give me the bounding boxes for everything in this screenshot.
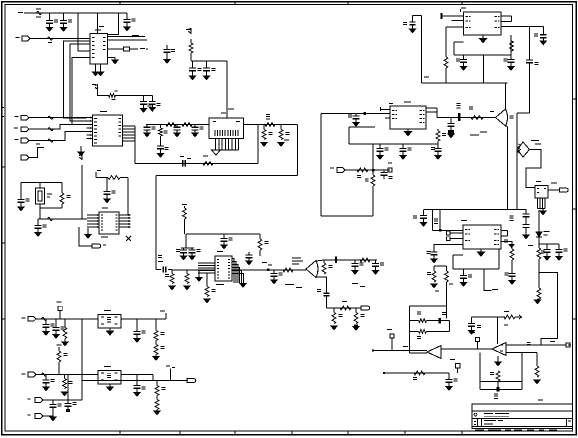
resistor R36 (536, 353, 538, 367)
wire U1 top right to rail (108, 13, 119, 35)
IC U8 (463, 225, 501, 249)
capacitor C18 (183, 248, 185, 250)
wire (96, 177, 108, 179)
ground (60, 28, 66, 32)
ground (377, 156, 383, 160)
power net label VCC (18, 12, 23, 13)
ground (354, 325, 358, 327)
wire to J8 (327, 307, 362, 309)
capacitor C20 (223, 234, 225, 239)
wire rail y209 (424, 209, 517, 211)
net label (284, 140, 289, 141)
resistor R26 (371, 175, 375, 186)
wire junction down (81, 319, 83, 400)
ground (50, 417, 56, 421)
title block (472, 404, 573, 429)
terminal (58, 306, 62, 310)
ground (556, 257, 562, 261)
capacitor C2 (63, 13, 65, 21)
ground (468, 331, 474, 335)
junction (364, 112, 367, 115)
wire J3 to U2 (29, 125, 87, 130)
wire right loop (539, 273, 557, 345)
ground (537, 298, 539, 301)
IC U2 (93, 115, 123, 146)
wire (345, 169, 390, 171)
ground (78, 152, 84, 156)
resistor R37 (504, 315, 515, 319)
U4 left pins (87, 214, 99, 216)
wire bottom net (385, 372, 449, 374)
capacitor C6 (206, 61, 208, 68)
wire bus A to bus B (257, 125, 259, 164)
wire loop down (483, 55, 485, 83)
capacitor C28 (402, 144, 404, 149)
U7 loop below (453, 42, 455, 55)
junction (267, 269, 270, 272)
capacitor C54 (413, 15, 422, 17)
resistor R18 (206, 273, 208, 287)
resistor R24 (355, 308, 357, 313)
U1 bottom pins (95, 64, 97, 72)
bead FB6 (42, 373, 47, 376)
ground (61, 392, 67, 396)
resistor R19 inline (283, 268, 293, 272)
ferrite bead FB2 (48, 116, 53, 119)
wire (190, 39, 192, 43)
wire U8 pin3 (434, 245, 463, 253)
wire rail (191, 60, 227, 62)
wire U3 out (437, 117, 496, 119)
wire U1 pin4 to rail (78, 13, 90, 51)
terminal (566, 343, 570, 347)
power symbol (95, 85, 98, 91)
junction (496, 387, 499, 392)
resistor R45 pullup (57, 345, 62, 346)
crystal Y1 (39, 183, 41, 189)
capacitor C46 (448, 373, 450, 380)
capacitor C15 (37, 219, 39, 226)
resistor R21 inline (360, 258, 370, 262)
ground (144, 133, 150, 137)
resistor R42 (64, 319, 66, 328)
ground (203, 76, 209, 80)
resistor R33 (446, 266, 448, 271)
ground (46, 28, 52, 32)
U7 left pin bar (441, 13, 443, 19)
ground (400, 156, 406, 160)
wire (81, 165, 83, 219)
ground (409, 29, 415, 33)
ground (534, 380, 540, 384)
bend tap (95, 172, 97, 178)
wire U6 out (548, 189, 560, 191)
wire opamp2 rail (506, 344, 566, 346)
wire W1 vertical (155, 176, 157, 270)
wire Q1 top (316, 260, 377, 261)
bend (165, 313, 167, 319)
ground (169, 286, 175, 290)
ground (523, 235, 529, 239)
ground (180, 256, 186, 260)
ground (43, 387, 49, 391)
ground (174, 133, 180, 137)
ground (43, 332, 49, 336)
terminal (388, 168, 392, 172)
capacitor C35 (529, 27, 531, 61)
connector J4 (21, 138, 29, 143)
resistor R23 (333, 308, 335, 313)
ground FL2 (109, 384, 111, 387)
resistor R41 inline (414, 371, 425, 375)
ground (544, 257, 550, 261)
wire FL2 out (121, 374, 153, 376)
connector J9 (330, 168, 334, 169)
resistor R1 (48, 37, 53, 40)
wire main bus mid (172, 269, 215, 271)
capacitor C42 (511, 269, 513, 274)
connector J13 (187, 378, 196, 382)
wire (507, 188, 509, 210)
wire A1 out (374, 350, 427, 352)
wire U1 pin3 down (70, 44, 90, 121)
U3 pin stub (380, 107, 382, 111)
ground (431, 284, 437, 288)
wire J4 to U2 (29, 132, 87, 141)
terminal (456, 364, 461, 369)
power symbol (79, 155, 82, 161)
wire J2 to U2 (29, 117, 87, 119)
capacitor C23 (354, 260, 356, 264)
U2 left pins (87, 117, 93, 119)
filter FL1 (98, 315, 121, 329)
wire FL1 out (121, 318, 166, 320)
wire A1 lower input (410, 352, 427, 354)
U3 pin stub2 (385, 117, 390, 119)
resistor R44 (155, 341, 157, 345)
ground (140, 109, 146, 113)
border tick marks (119, 2, 121, 5)
ground (460, 283, 466, 287)
IC U6 (535, 186, 548, 199)
capacitor C48 (55, 319, 57, 328)
ground (184, 286, 190, 290)
U3 right pins (426, 107, 437, 109)
wire rail to connector block (226, 61, 228, 118)
wire Q1 bottom (316, 277, 327, 293)
diode D1 (538, 210, 540, 232)
capacitor C9b (160, 136, 162, 146)
ground (134, 393, 140, 397)
wire U1 pin2 down (64, 41, 90, 118)
U7 right pins (501, 15, 512, 17)
capacitor C22 (273, 270, 275, 274)
capacitor C29 (437, 144, 439, 149)
wire to J13 (82, 380, 188, 382)
ground (134, 339, 140, 343)
wire crystal rail (21, 182, 62, 184)
U5 right pins comb (232, 259, 234, 284)
capacitor C14 (20, 183, 22, 200)
ground open (212, 150, 221, 155)
ground (446, 387, 452, 391)
wire left net (410, 305, 447, 307)
U2 ground stub (80, 146, 82, 152)
wire diode rail (539, 243, 559, 245)
capacitor C4 (166, 45, 168, 50)
op-amp A2 (492, 343, 506, 356)
wire J1 to U1 (30, 38, 90, 40)
title block bottom text (475, 429, 484, 430)
wire A2 input2 (506, 352, 537, 354)
ground (508, 67, 514, 71)
capacitor C24 (375, 260, 377, 264)
net tie symbol (37, 12, 42, 15)
ground (431, 259, 437, 263)
capacitor C40 (431, 251, 438, 253)
U8 left pins (447, 231, 451, 235)
wire U1 pin to label (108, 35, 146, 37)
ground (261, 143, 267, 147)
wire left vert (421, 16, 423, 84)
wire (36, 318, 98, 320)
ground (372, 271, 378, 275)
U8 right pins (501, 230, 508, 232)
U8 loop below (452, 255, 454, 269)
capacitor C38 chain (517, 195, 526, 214)
resistor R16 (171, 270, 173, 274)
wire A1 inputs (440, 346, 442, 358)
wire down right (538, 262, 540, 288)
ground FL1 (109, 328, 111, 331)
resistor R35 (537, 288, 541, 299)
resistor R7 inline (265, 123, 275, 127)
ground (480, 249, 482, 252)
capacitor C41 (463, 269, 465, 276)
connector J12 (28, 372, 36, 377)
resistor R9 (280, 125, 282, 130)
zone letters (2, 107, 4, 108)
connector block J6 (209, 118, 244, 139)
ground (271, 280, 277, 284)
wire J6 pins down (215, 139, 217, 151)
ground (448, 130, 454, 135)
capacitor C13 series (182, 160, 184, 166)
component FB1 (108, 48, 124, 50)
resistor R27 inline (357, 168, 368, 172)
wire xtal bus (38, 218, 87, 220)
ground (124, 27, 130, 31)
junction x373 (372, 169, 375, 172)
wire bus B (135, 162, 258, 164)
wire (98, 90, 109, 95)
wire (40, 207, 62, 209)
op-amp A1 (427, 346, 441, 359)
resistor R29 (445, 27, 447, 57)
no connect X (126, 236, 131, 241)
U6 pins (537, 198, 539, 209)
U7 left pin 3 (446, 26, 464, 28)
capacitor C11 (176, 125, 178, 128)
capacitor C32 (542, 27, 544, 35)
resistor R22 inline (340, 306, 351, 310)
resistor R10 inline (203, 161, 213, 165)
wire to connector (79, 227, 92, 246)
junction bar (458, 113, 460, 121)
wire U1 pin gnd (108, 57, 116, 59)
U5 left pins (198, 262, 215, 264)
ground (509, 245, 514, 248)
wire U1 pin5 down (72, 58, 90, 125)
ground (353, 123, 359, 127)
IC U4 (99, 212, 119, 234)
capacitor C36 (423, 210, 425, 216)
filter FL2 (98, 370, 121, 384)
ground (352, 271, 358, 275)
resistor R38 (410, 320, 419, 322)
resistor R20 (323, 260, 325, 263)
bend2 (170, 369, 172, 381)
title block text (484, 413, 493, 414)
junction cap (335, 257, 337, 264)
ground (435, 156, 441, 160)
IC U5 (215, 256, 232, 281)
ground (189, 256, 195, 260)
wire top power rail (24, 12, 127, 14)
transistor Q1 (306, 261, 318, 278)
rail caps (181, 247, 194, 249)
ground (35, 233, 41, 237)
wire top link (517, 112, 530, 114)
capacitor C27 (379, 144, 381, 149)
ground (189, 76, 195, 80)
wire A2 out to A1 (441, 348, 492, 350)
power tap (182, 204, 187, 205)
terminal tap (476, 338, 480, 342)
wire Q2 top up (505, 83, 507, 110)
U2 right pins to bus (123, 125, 136, 127)
capacitor C3 (126, 13, 128, 20)
ground (18, 207, 24, 211)
ground (542, 209, 544, 212)
wire U8 pin1 feed (432, 210, 434, 231)
capacitor C9 (146, 125, 148, 128)
wire bus A to W1 (297, 125, 299, 176)
resistor R28 inline (471, 116, 483, 120)
resistor R34 (538, 244, 540, 248)
resistor chain R46 (156, 381, 158, 386)
wire U1 pin6 (108, 39, 148, 41)
resistor R47 (156, 396, 158, 400)
wire bus A (146, 124, 209, 126)
capacitor C49 (136, 319, 138, 332)
resistor R2 (189, 43, 193, 53)
wire Q3 (526, 150, 541, 188)
wire W1 horizontal (156, 175, 298, 177)
capacitor C53 (67, 375, 69, 400)
capacitor C47 (45, 319, 47, 325)
A2 feedback loop (479, 353, 481, 390)
wire loop top (186, 233, 260, 235)
ferrite bead FB3 (48, 128, 53, 131)
connector J8 (361, 306, 370, 310)
bead FB5 (42, 317, 47, 320)
capacitor C19 (191, 248, 193, 250)
ground (482, 35, 484, 39)
ferrite bead FB4 (48, 139, 53, 142)
connector J15 (35, 414, 43, 419)
resistor R30 (510, 41, 514, 51)
ground (153, 357, 159, 361)
ground (540, 41, 546, 45)
power symbol VDD (188, 29, 191, 35)
U7 left pin 2 (452, 20, 464, 22)
ground (157, 154, 163, 158)
wire x517 (516, 113, 518, 195)
capacitor C39 (523, 224, 530, 226)
capacitor C34 (510, 55, 512, 60)
wire down to U4 (127, 178, 129, 216)
ground (420, 223, 426, 227)
ground (204, 299, 210, 303)
resistor R40 (496, 371, 500, 381)
ground (278, 143, 284, 147)
wire U8 out down (484, 269, 492, 291)
connector J7 (92, 244, 101, 248)
connector J5 (21, 155, 29, 160)
resistor R15 (259, 234, 261, 239)
ground (497, 356, 499, 362)
resistor R4 (160, 125, 162, 129)
capacitor C17 series (156, 269, 161, 271)
wire U3 left long (320, 114, 322, 217)
resistor R17 (186, 270, 188, 274)
connector J14 (35, 398, 43, 403)
capacitor C21 (248, 252, 250, 255)
ground stub (198, 270, 200, 278)
capacitor C1 (49, 13, 51, 21)
capacitor C43 (546, 244, 548, 250)
capacitor C33 (463, 55, 465, 60)
wire cap rail (472, 316, 506, 318)
ground (112, 60, 118, 64)
transistor Q3 (518, 142, 530, 157)
U4 label (101, 237, 108, 238)
resistor R25 (437, 129, 439, 131)
resistor chain R43 (155, 319, 157, 331)
resistor R39 (410, 330, 419, 332)
wire rail y83 (422, 82, 508, 84)
wire (43, 399, 82, 401)
ground U3 (407, 129, 409, 132)
capacitor C25 series (323, 292, 329, 294)
capacitor C44 (558, 244, 560, 250)
wire U3 input (321, 113, 390, 115)
resistor R13 (108, 176, 120, 180)
connector J10 (560, 188, 569, 192)
connector J3 (21, 127, 29, 132)
wire J5 (29, 148, 44, 158)
junction (439, 318, 441, 323)
wire Q2 bottom down (506, 126, 508, 210)
ground (509, 281, 515, 285)
capacitor C5 (192, 61, 194, 68)
IC U1 (90, 34, 108, 65)
ground (104, 199, 110, 203)
ground (331, 326, 337, 330)
resistor R14 (183, 208, 187, 219)
ground (246, 261, 252, 265)
